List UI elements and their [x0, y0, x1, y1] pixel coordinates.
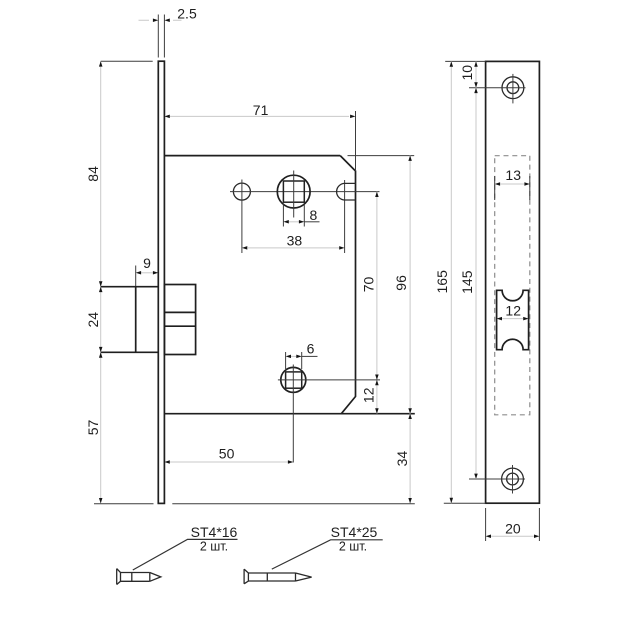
dimension 6	[286, 341, 318, 369]
svg-text:165: 165	[434, 270, 450, 294]
left dimension chain 84/24/57	[85, 61, 153, 503]
lower deadbolt hole	[278, 365, 380, 463]
dimension 50	[164, 445, 293, 463]
svg-text:70: 70	[361, 277, 377, 293]
svg-text:12: 12	[361, 387, 377, 403]
svg-text:2 шт.: 2 шт.	[339, 540, 367, 554]
faceplate side view	[158, 61, 164, 503]
top screw hole	[469, 74, 526, 104]
svg-text:9: 9	[143, 255, 151, 271]
svg-text:10: 10	[459, 65, 475, 81]
latch bolt inside body	[164, 285, 195, 355]
dimension line 96/34	[393, 156, 412, 504]
follower hub circle with square hole	[277, 171, 310, 218]
svg-text:84: 84	[85, 166, 101, 182]
svg-text:12: 12	[505, 302, 521, 318]
dimension 2.5	[139, 6, 197, 58]
svg-text:34: 34	[394, 451, 410, 467]
dimension 9	[136, 255, 159, 286]
lock body outline	[164, 156, 414, 414]
svg-text:50: 50	[219, 445, 235, 461]
plate bottom edge extension	[444, 502, 486, 504]
screw ST4*16	[117, 569, 161, 585]
horizontal centerline through hub	[230, 191, 380, 193]
dashed body footprint on faceplate	[495, 156, 530, 415]
dimension line 70/12	[361, 192, 379, 414]
bottom baseline extension	[94, 503, 154, 505]
svg-text:2 шт.: 2 шт.	[200, 540, 228, 554]
svg-text:24: 24	[85, 312, 101, 328]
svg-text:145: 145	[459, 270, 475, 294]
bottom baseline right part	[172, 503, 414, 505]
svg-text:8: 8	[310, 207, 318, 223]
screw1 leader and label	[133, 524, 238, 570]
svg-text:2.5: 2.5	[177, 6, 197, 22]
dimension 38	[242, 180, 345, 253]
dimension 165	[434, 61, 453, 503]
screw ST4*25	[244, 569, 312, 584]
svg-text:57: 57	[85, 420, 101, 436]
svg-text:38: 38	[287, 232, 303, 248]
plate top edge extension	[445, 60, 485, 62]
screw2 leader and label	[272, 524, 383, 569]
svg-text:ST4*16: ST4*16	[191, 524, 238, 540]
faceplate front view	[486, 61, 540, 503]
dimension 13	[495, 167, 530, 200]
svg-text:13: 13	[505, 167, 521, 183]
svg-text:20: 20	[505, 521, 521, 537]
dimension 8	[283, 205, 319, 227]
svg-text:ST4*25: ST4*25	[331, 524, 378, 540]
latch bolt outside plate	[101, 287, 159, 353]
D-shaped latch follower hole at edge	[337, 183, 356, 200]
svg-text:6: 6	[307, 341, 315, 357]
fixing hole small circle	[233, 180, 250, 254]
dimension line 10/145	[459, 61, 478, 479]
dimension 20	[486, 508, 540, 541]
dimension 12 (spool)	[497, 302, 529, 320]
latch cutout spool shape	[497, 290, 529, 349]
dimension 71	[164, 102, 355, 171]
svg-text:71: 71	[253, 102, 269, 118]
svg-text:96: 96	[393, 275, 409, 291]
bottom screw hole	[469, 465, 525, 494]
